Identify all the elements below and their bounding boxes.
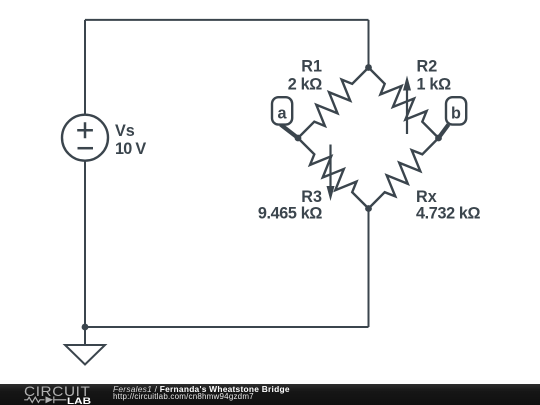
svg-text:b: b — [451, 105, 461, 123]
junction dot top node — [365, 64, 372, 71]
wire top horizontal — [85, 19, 369, 21]
label R1 — [288, 58, 323, 94]
ground — [65, 345, 105, 365]
CircuitLab logo — [0, 384, 100, 405]
svg-text:Vs: Vs — [115, 122, 135, 140]
resistor R1 — [298, 68, 369, 139]
voltage source Vs — [62, 115, 108, 161]
junction dot right node (b) — [435, 135, 442, 142]
node b flag stem — [439, 125, 449, 139]
svg-text:Rx: Rx — [416, 188, 437, 206]
arrow of R2 — [403, 76, 411, 135]
svg-text:10 V: 10 V — [115, 140, 146, 158]
junction dot left node (a) — [295, 135, 302, 142]
node b flag — [446, 97, 466, 124]
svg-text:R2: R2 — [417, 58, 438, 76]
wire left vertical lower (Vs bottom to ground junction) — [84, 161, 86, 328]
svg-text:2 kΩ: 2 kΩ — [288, 75, 323, 93]
junction dot ground — [82, 324, 89, 331]
label R2 — [417, 58, 452, 94]
svg-text:1 kΩ: 1 kΩ — [417, 75, 452, 93]
wire left vertical upper (to Vs top) — [84, 20, 86, 115]
svg-text:4.732 kΩ: 4.732 kΩ — [416, 205, 481, 223]
label Rx — [416, 188, 481, 223]
svg-text:R3: R3 — [301, 188, 322, 206]
label Vs value — [115, 122, 146, 158]
svg-text:a: a — [277, 105, 287, 123]
junction dot bottom node — [365, 205, 372, 212]
node a flag stem — [281, 125, 299, 139]
arrow of R3 — [327, 145, 335, 202]
label R3 — [258, 188, 323, 223]
resistor Rx — [369, 138, 439, 209]
footer title text — [113, 385, 290, 393]
wire ground stub — [84, 327, 86, 345]
wire bridge bottom riser — [368, 209, 370, 328]
svg-text:R1: R1 — [301, 58, 322, 76]
footer url text — [113, 393, 254, 401]
wire right vertical drop to bridge top — [368, 20, 370, 68]
svg-text:LAB: LAB — [67, 396, 91, 405]
resistor R2 (variable) — [369, 68, 439, 139]
resistor R3 (variable) — [298, 138, 369, 209]
node a flag — [272, 97, 292, 124]
wire bottom horizontal — [85, 326, 369, 328]
footer bar — [0, 384, 540, 405]
svg-text:9.465 kΩ: 9.465 kΩ — [258, 205, 323, 223]
